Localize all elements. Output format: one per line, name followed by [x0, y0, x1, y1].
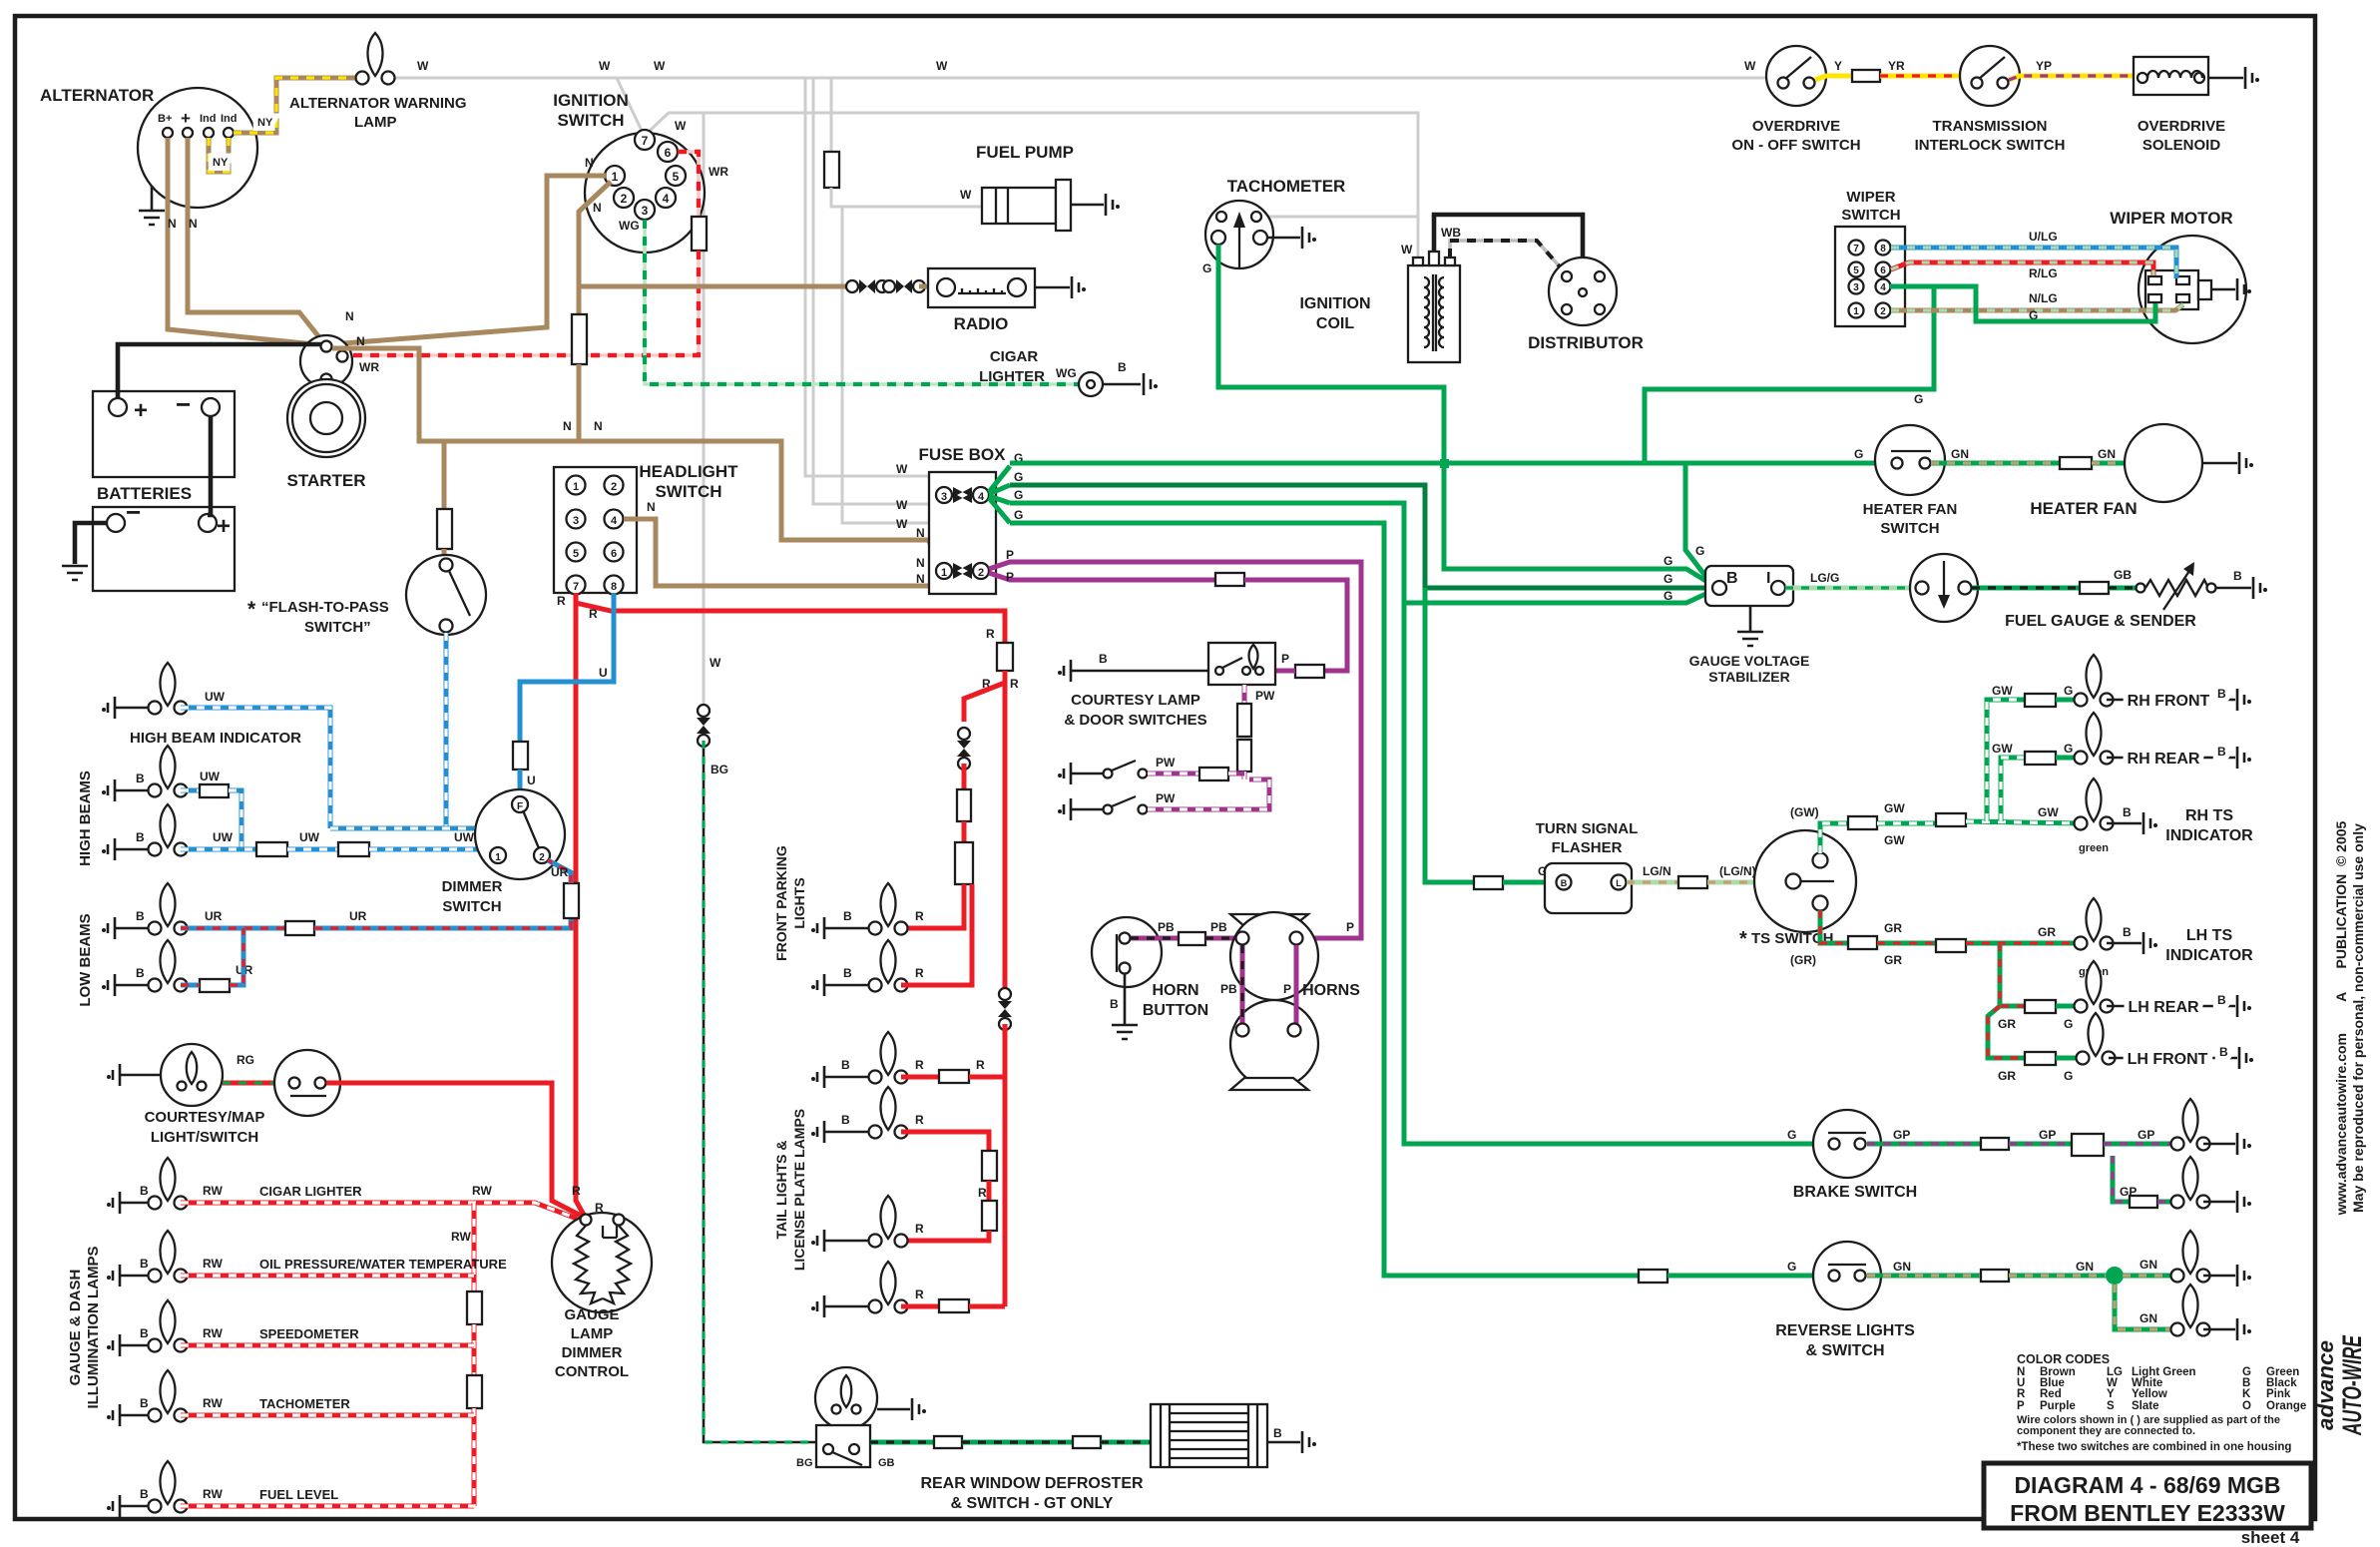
- svg-text:B: B: [1110, 997, 1119, 1011]
- wire GR branch down: [2000, 943, 2025, 1006]
- svg-text:HEADLIGHT: HEADLIGHT: [639, 462, 738, 481]
- fuse 1-2: [936, 563, 952, 579]
- svg-text:1: 1: [612, 170, 619, 184]
- cigar lighter lamp ground: [107, 1192, 120, 1214]
- svg-text:TRANSMISSION: TRANSMISSION: [1932, 118, 2047, 135]
- ignition pin 1: [605, 166, 625, 186]
- svg-text:GAUGE VOLTAGE: GAUGE VOLTAGE: [1689, 653, 1810, 669]
- svg-text:B: B: [1118, 360, 1127, 374]
- fuel pump ground: [1071, 204, 1104, 207]
- svg-text:+: +: [181, 109, 191, 128]
- fuel gauge circle: [1910, 554, 1978, 622]
- svg-text:RW: RW: [203, 1487, 223, 1501]
- courtesy B ground: [1058, 660, 1071, 682]
- svg-text:FLASHER: FLASHER: [1552, 839, 1623, 856]
- svg-text:3: 3: [941, 491, 947, 503]
- wire N headlight pin4 to fuse box: [624, 519, 944, 586]
- svg-text:B: B: [136, 909, 145, 923]
- sender ground: [2215, 587, 2251, 590]
- svg-text:B: B: [841, 1058, 850, 1072]
- svg-text:LIGHTER: LIGHTER: [979, 368, 1045, 385]
- svg-text:GR: GR: [1998, 1069, 2016, 1083]
- dimmer control pins: [581, 1215, 592, 1226]
- svg-text:GN: GN: [2140, 1258, 2157, 1272]
- svg-text:GB: GB: [878, 1457, 895, 1469]
- stabilizer B pin: [1712, 581, 1726, 595]
- wire G bus4: [1010, 523, 1639, 1276]
- svg-text:DISTRIBUTOR: DISTRIBUTOR: [1528, 333, 1644, 352]
- svg-text:RW: RW: [451, 1230, 471, 1244]
- svg-text:YP: YP: [2036, 59, 2052, 73]
- svg-text:GP: GP: [1893, 1128, 1910, 1142]
- svg-text:UR: UR: [349, 909, 367, 923]
- high beam indicator lamp: [149, 663, 188, 715]
- alternator terminal +: [183, 128, 193, 138]
- wire W down to rear defroster connector: [703, 113, 706, 711]
- svg-text:ILLUMINATION LAMPS: ILLUMINATION LAMPS: [85, 1246, 102, 1408]
- RH FRONT lamp: [2075, 655, 2114, 707]
- fuse on GN wire: [1981, 1270, 2009, 1282]
- horn button circle: [1092, 917, 1162, 987]
- svg-text:RW: RW: [203, 1184, 223, 1198]
- svg-text:Orange: Orange: [2266, 1400, 2306, 1412]
- fuse on flash-to-pass feed: [437, 509, 452, 549]
- defroster ground: [1267, 1441, 1300, 1444]
- battery 1 + terminal: [109, 398, 127, 416]
- wire P horn1 to horn2: [1294, 945, 1299, 1030]
- svg-text:GN: GN: [1951, 447, 1969, 461]
- svg-text:Pink: Pink: [2266, 1388, 2291, 1400]
- high beam lamp 2 ground: [102, 838, 115, 860]
- svg-text:RW: RW: [203, 1257, 223, 1271]
- horn button ground: [1124, 974, 1127, 1024]
- wire GW fuse to fuse2: [1877, 821, 1936, 826]
- svg-text:SOLENOID: SOLENOID: [2142, 137, 2221, 154]
- ignition pin 3: [635, 200, 655, 220]
- wire B coil HT to distributor: [1434, 215, 1583, 287]
- svg-text:RG: RG: [237, 1053, 254, 1067]
- tail lamp 1: [869, 1032, 908, 1084]
- svg-text:advance: advance: [2313, 1340, 2338, 1430]
- battery 2 + terminal: [199, 514, 217, 532]
- svg-text:P: P: [1006, 548, 1014, 562]
- wire R headlight pin7 down (main): [576, 603, 584, 1215]
- wire UR fuse to dimmer pin 2: [548, 860, 571, 883]
- headlight pin 3: [567, 510, 586, 529]
- svg-text:WG: WG: [1056, 366, 1077, 380]
- svg-text:G: G: [1787, 1128, 1796, 1142]
- svg-text:7: 7: [642, 134, 649, 148]
- TS switch pin left: [1786, 874, 1801, 889]
- wire GB fuse to sender: [2109, 586, 2137, 591]
- svg-text:UR: UR: [205, 909, 223, 923]
- wire PB horn button to fuse: [1131, 936, 1179, 941]
- wire PW fuse to junction: [1228, 772, 1244, 776]
- fuse PW upper: [1237, 704, 1251, 737]
- svg-text:LG/G: LG/G: [1810, 571, 1839, 585]
- flasher box: [1545, 863, 1632, 913]
- wire N fuse to flash-to-pass switch: [442, 549, 447, 559]
- tachometer arrow: [1238, 226, 1240, 267]
- wire GN junction to reverse lamp 1: [2123, 1274, 2171, 1279]
- headlight switch box: [554, 467, 637, 593]
- wire B battery1+ to starter: [118, 344, 321, 399]
- wire YP interlock to solenoid: [2009, 76, 2136, 80]
- front parking lamp 2: [869, 940, 908, 992]
- svg-text:R: R: [572, 1184, 581, 1198]
- wire N/LG wiper pin2 to motor: [1891, 304, 2183, 310]
- svg-text:UW: UW: [299, 830, 320, 844]
- svg-text:WIPER: WIPER: [1846, 189, 1895, 206]
- wire RW cigar row: [181, 1203, 580, 1220]
- overdrive solenoid box: [2134, 57, 2208, 95]
- svg-text:B: B: [136, 830, 145, 844]
- wire N from alternator B+: [168, 138, 324, 345]
- fuse 2 on GR wire: [1936, 939, 1966, 952]
- svg-text:FUEL LEVEL: FUEL LEVEL: [259, 1487, 338, 1502]
- svg-text:UW: UW: [213, 830, 234, 844]
- svg-text:G: G: [1664, 554, 1672, 568]
- svg-text:B: B: [1726, 570, 1738, 587]
- wire GB switch to fuse: [870, 1440, 934, 1445]
- wire G heater branch: [1645, 286, 1934, 463]
- ignition pin 6: [658, 142, 678, 162]
- svg-text:FROM BENTLEY E2333W: FROM BENTLEY E2333W: [2010, 1500, 2285, 1526]
- fuse on GP branch: [2130, 1196, 2157, 1208]
- svg-text:W: W: [417, 59, 429, 73]
- svg-text:R: R: [915, 966, 924, 980]
- starter motor: [287, 379, 365, 457]
- svg-text:WG: WG: [619, 219, 640, 233]
- door switch 1 ground: [1058, 763, 1071, 784]
- svg-text:WIPER MOTOR: WIPER MOTOR: [2110, 209, 2232, 228]
- speedometer lamp: [149, 1300, 188, 1352]
- svg-text:Yellow: Yellow: [2132, 1388, 2167, 1400]
- svg-text:B+: B+: [158, 113, 172, 125]
- svg-text:G: G: [1664, 572, 1672, 586]
- svg-text:LH TS: LH TS: [2186, 927, 2233, 944]
- wire UR fuse to dimmer pin2: [314, 918, 571, 928]
- courtesy map lamp ground: [107, 1064, 120, 1086]
- wire R connector to fuse: [962, 764, 967, 789]
- wire GN fuse to junction: [2009, 1274, 2108, 1279]
- svg-text:GR: GR: [2038, 925, 2056, 939]
- svg-text:1: 1: [941, 567, 947, 579]
- wire W branch to fuse box (2): [813, 78, 936, 504]
- wire GB fuse to fuse2: [962, 1440, 1073, 1445]
- svg-text:4: 4: [1880, 282, 1886, 293]
- wire GW TS switch up: [1820, 823, 1848, 853]
- svg-text:W: W: [960, 188, 972, 202]
- stabilizer ground: [1749, 606, 1752, 631]
- fuse RH FRONT: [2025, 694, 2056, 707]
- radio box: [928, 268, 1035, 307]
- svg-text:B: B: [1099, 652, 1108, 666]
- svg-text:R: R: [976, 1058, 985, 1072]
- radio ground: [1035, 286, 1070, 289]
- svg-text:GAUGE: GAUGE: [564, 1306, 619, 1323]
- junction tach/green bus: [1440, 459, 1449, 468]
- svg-text:GN: GN: [2098, 447, 2116, 461]
- defroster lamp: [815, 1367, 877, 1429]
- alternator terminal Ind: [204, 128, 214, 138]
- wire G bus2 to flasher: [1425, 588, 1474, 882]
- svg-text:Purple: Purple: [2040, 1400, 2076, 1412]
- svg-text:SWITCH: SWITCH: [442, 898, 501, 915]
- svg-text:R: R: [986, 627, 995, 641]
- wire N starter junction to FTP/bus: [332, 348, 944, 566]
- svg-text:N: N: [647, 500, 656, 514]
- svg-text:U: U: [599, 666, 608, 680]
- horn 1 pin left: [1236, 932, 1249, 945]
- headlight pin 4: [605, 510, 624, 529]
- svg-text:UW: UW: [454, 830, 475, 844]
- svg-text:S: S: [2107, 1400, 2115, 1412]
- tail lamp 4: [869, 1262, 908, 1313]
- fuse on flasher feed: [1474, 876, 1503, 889]
- svg-text:8: 8: [1880, 244, 1886, 255]
- wire RW tachometer row: [181, 1413, 474, 1418]
- svg-text:K: K: [2242, 1388, 2251, 1400]
- wire GB to element: [1101, 1440, 1151, 1445]
- wire N fuse to bus: [577, 364, 582, 441]
- courtesy map switch circle: [274, 1050, 340, 1116]
- wire N ignition pin1 to left then starter junction: [331, 176, 607, 344]
- svg-text:DIMMER: DIMMER: [442, 878, 503, 895]
- svg-text:4: 4: [978, 491, 985, 503]
- wire R courtesy switch to gauge dimmer: [326, 1083, 583, 1217]
- wire RW oil row: [181, 1274, 474, 1279]
- cigar lighter lamp: [149, 1158, 188, 1210]
- wire PW fuse to door switches: [1242, 772, 1247, 779]
- svg-text:GW: GW: [1884, 801, 1905, 815]
- wire B battery1- to battery2+: [208, 415, 211, 515]
- svg-text:UR: UR: [551, 865, 569, 879]
- svg-text:1: 1: [495, 852, 501, 863]
- wire WR fuse to starter solenoid: [347, 251, 699, 355]
- svg-text:N: N: [585, 156, 594, 170]
- svg-text:G: G: [1014, 488, 1023, 502]
- svg-text:G: G: [1854, 447, 1863, 461]
- fuse on GB wire: [934, 1436, 962, 1448]
- wiper pin 1: [1849, 303, 1864, 318]
- horn 1 circle: [1230, 912, 1318, 1000]
- svg-text:−: −: [176, 389, 191, 419]
- fuse at courtesy box: [1295, 665, 1324, 678]
- fuse on U wire: [513, 742, 528, 770]
- svg-text:Slate: Slate: [2132, 1400, 2159, 1412]
- wire G fuse4 fan: [989, 466, 1010, 523]
- svg-text:UW: UW: [205, 690, 226, 704]
- fuse box body: [929, 472, 996, 594]
- oil pressure lamp: [149, 1231, 188, 1283]
- svg-text:N: N: [593, 201, 602, 215]
- door switch 2: [1104, 805, 1113, 814]
- svg-text:HIGH BEAM INDICATOR: HIGH BEAM INDICATOR: [130, 730, 301, 747]
- connector on W defroster wire: [697, 705, 711, 747]
- wire R tail lamp2 to fuse chain: [901, 1132, 989, 1151]
- svg-text:GN: GN: [2076, 1260, 2094, 1274]
- svg-text:TACHOMETER: TACHOMETER: [259, 1396, 350, 1411]
- svg-text:U/LG: U/LG: [2029, 230, 2058, 244]
- wire G fuse to flasher: [1503, 880, 1556, 885]
- svg-text:6: 6: [1880, 265, 1886, 276]
- headlight pin 1: [567, 476, 586, 495]
- battery ground: [62, 566, 88, 580]
- wire W branch to fuse box (1): [805, 78, 942, 492]
- horn 2 pin left: [1236, 1024, 1249, 1037]
- svg-text:R: R: [915, 1058, 924, 1072]
- svg-text:B: B: [843, 909, 852, 923]
- junction fuse on GP: [2072, 1134, 2104, 1156]
- wire W fuel pump feed: [830, 78, 833, 152]
- svg-text:FUEL PUMP: FUEL PUMP: [976, 143, 1074, 162]
- headlight pin 5: [567, 543, 586, 562]
- svg-text:GN: GN: [1893, 1260, 1911, 1274]
- svg-text:3: 3: [573, 515, 579, 527]
- wire GW branch up to RH FRONT: [1987, 700, 2025, 821]
- solenoid ground: [2208, 77, 2243, 80]
- svg-text:W: W: [654, 59, 666, 73]
- svg-text:Y: Y: [2107, 1388, 2115, 1400]
- wire N connector to radio: [919, 284, 928, 289]
- svg-text:Red: Red: [2040, 1388, 2062, 1400]
- fuse 3-4: [936, 487, 952, 503]
- svg-text:1: 1: [1853, 306, 1859, 317]
- svg-text:PW: PW: [1255, 689, 1275, 703]
- fuse on N wire below radio tap: [572, 314, 587, 364]
- svg-text:LIGHT/SWITCH: LIGHT/SWITCH: [151, 1129, 258, 1146]
- svg-text:Ind: Ind: [200, 113, 217, 125]
- svg-text:sheet 4: sheet 4: [2241, 1528, 2300, 1547]
- wire GP branch down: [2113, 1156, 2130, 1202]
- RH TS ground: [2107, 822, 2142, 825]
- svg-text:N: N: [345, 309, 354, 323]
- svg-text:SWITCH”: SWITCH”: [304, 619, 371, 636]
- junction dot: [2106, 1267, 2124, 1285]
- wiper pin 7: [1849, 241, 1864, 256]
- wire R between fuses: [962, 821, 967, 842]
- svg-text:W: W: [896, 462, 908, 476]
- svg-text:PB: PB: [1220, 982, 1237, 996]
- TS switch circle: [1754, 830, 1856, 932]
- wire G fuse to reverse switch: [1667, 1274, 1828, 1279]
- svg-text:LH REAR: LH REAR: [2128, 999, 2199, 1016]
- svg-text:P: P: [1281, 652, 1289, 666]
- RH REAR ground: [2107, 757, 2235, 760]
- svg-text:R: R: [557, 594, 566, 608]
- svg-text:BG: BG: [796, 1457, 813, 1469]
- brake lamp 1 ground: [2203, 1143, 2235, 1146]
- wire W branch to fuse box (3): [842, 207, 942, 523]
- wire P from fuse 2 lower to courtesy: [989, 573, 1215, 580]
- svg-text:+: +: [134, 397, 148, 424]
- reverse lamp 1: [2171, 1231, 2210, 1283]
- wire G fuse to RH REAR lamp: [2056, 756, 2082, 761]
- wire GN switch to fuse: [1931, 461, 2060, 466]
- wire GW to RH TS indicator: [1966, 821, 2081, 823]
- svg-text:P: P: [1006, 570, 1014, 584]
- svg-text:DIMMER: DIMMER: [562, 1344, 623, 1361]
- wire GP to brake lamp 1: [2104, 1142, 2171, 1147]
- fuse high beams A: [256, 842, 287, 856]
- LH TS ground: [2107, 942, 2142, 945]
- solenoid pin top: [321, 341, 332, 352]
- svg-text:PW: PW: [1156, 791, 1176, 805]
- svg-text:O: O: [2242, 1400, 2251, 1412]
- svg-text:RW: RW: [472, 1184, 492, 1198]
- svg-text:*: *: [1739, 928, 1747, 950]
- wire W bus B from pin 7 to coil: [650, 113, 1418, 258]
- dimmer control rheostat: [574, 1226, 603, 1303]
- wire WB coil to distributor: [1450, 241, 1565, 272]
- svg-text:COURTESY/MAP: COURTESY/MAP: [145, 1109, 265, 1126]
- svg-text:N: N: [189, 217, 198, 231]
- svg-text:GW: GW: [1884, 833, 1905, 847]
- wire GP brake switch to fuse: [1867, 1142, 1981, 1147]
- wire G tachometer down: [1218, 245, 1712, 585]
- svg-text:& SWITCH: & SWITCH: [1805, 1342, 1884, 1359]
- dimmer switch circle: [475, 789, 565, 879]
- reverse lamp 1 ground: [2203, 1275, 2235, 1278]
- svg-text:STABILIZER: STABILIZER: [1708, 669, 1789, 685]
- tail lamp 2: [869, 1087, 908, 1139]
- fuse tail lamp 4: [939, 1299, 969, 1312]
- svg-text:PB: PB: [1158, 920, 1175, 934]
- svg-text:G: G: [2064, 684, 2073, 698]
- solenoid pin bottom: [321, 374, 332, 385]
- fuse RW bus A: [467, 1291, 482, 1324]
- svg-text:+: +: [217, 513, 231, 540]
- fuse PW lower: [1237, 740, 1251, 772]
- ignition coil box: [1408, 265, 1460, 362]
- svg-text:BUTTON: BUTTON: [1143, 1002, 1208, 1019]
- wire P from fuse 2 upper: [989, 562, 1361, 938]
- wiper motor ground: [2211, 288, 2235, 291]
- reverse lamp 2 ground: [2203, 1328, 2235, 1331]
- svg-text:W: W: [599, 59, 611, 73]
- svg-text:Y: Y: [1834, 59, 1842, 73]
- svg-text:B: B: [2219, 1045, 2228, 1059]
- fuse on GP wire: [1981, 1138, 2009, 1150]
- connector on parking branch: [957, 728, 971, 770]
- fuse on reverse feed: [1639, 1270, 1667, 1283]
- wire G fuse to LH REAR lamp: [2056, 1004, 2082, 1009]
- fuse on courtesy P wire: [1215, 573, 1244, 586]
- svg-text:TURN SIGNAL: TURN SIGNAL: [1536, 820, 1639, 837]
- wire N ignition pin1 down to radio/bus: [579, 182, 611, 314]
- fuse on GR wire: [1848, 936, 1877, 949]
- reverse lamp 2: [2171, 1285, 2210, 1336]
- flash-to-pass pin bottom: [440, 620, 453, 633]
- svg-text:FUSE BOX: FUSE BOX: [919, 445, 1007, 464]
- svg-text:8: 8: [611, 581, 617, 593]
- wire RW bus vertical: [472, 1203, 477, 1291]
- svg-text:FRONT PARKING: FRONT PARKING: [773, 845, 789, 961]
- color codes legend: [2017, 1352, 2306, 1453]
- svg-text:GW: GW: [2038, 805, 2059, 819]
- RH FRONT ground: [2107, 699, 2235, 702]
- fuse on UR vertical: [564, 883, 579, 918]
- defroster element: [1151, 1404, 1267, 1467]
- svg-text:B: B: [140, 1326, 149, 1340]
- wire R main down to parking branch: [964, 671, 1005, 722]
- wire RG lamp to switch: [223, 1081, 275, 1086]
- svg-text:LIGHTS: LIGHTS: [791, 877, 807, 928]
- wire G bus3: [1010, 503, 1712, 603]
- svg-text:OIL PRESSURE/WATER TEMPERATURE: OIL PRESSURE/WATER TEMPERATURE: [259, 1257, 507, 1272]
- wire G fuse to LH FRONT lamp: [2056, 1056, 2083, 1061]
